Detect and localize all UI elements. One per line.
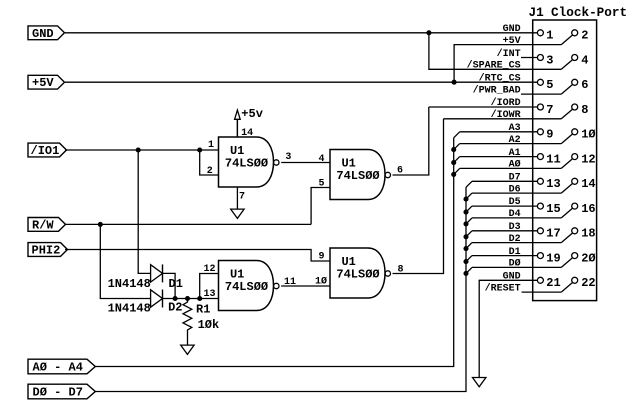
net name /INT at pin 3 [497, 48, 521, 60]
pin number 20 [581, 251, 595, 265]
+5V power symbol at U1 pin 14 [235, 107, 263, 137]
svg-text:R/W: R/W [32, 218, 54, 232]
svg-text:D6: D6 [509, 184, 521, 195]
junction GND branch [427, 31, 431, 35]
svg-text:6: 6 [581, 78, 588, 92]
wire D0 to pin 20 [472, 258, 573, 268]
svg-text:+5V: +5V [503, 36, 521, 47]
svg-text:/PWR_BAD: /PWR_BAD [473, 84, 521, 96]
pin number 13 [546, 177, 560, 191]
net label R/W [28, 218, 66, 233]
op-amp U1 NAND gate C pins 12-13-11 [219, 261, 279, 311]
pin number 18 [581, 227, 595, 241]
pin 20 circle [572, 253, 578, 259]
pin 14 circle [572, 178, 578, 184]
pin number 13 [203, 289, 215, 300]
wire A3 to pin 9 [460, 131, 538, 133]
pin 11 circle [537, 154, 543, 160]
pin number 7 [239, 191, 245, 202]
pin 21 circle [537, 277, 543, 283]
pin number 6 [581, 78, 588, 92]
svg-text:2Ø: 2Ø [581, 251, 595, 265]
junction D4 entry [464, 222, 468, 226]
svg-text:1Ø: 1Ø [581, 128, 595, 142]
wire R/W elbow up to pin 5 [311, 188, 330, 225]
net label A0 - A4 bus [28, 359, 95, 374]
junction D1-D2 cathodes [173, 296, 177, 300]
pin 8 circle [572, 104, 578, 110]
svg-text:22: 22 [581, 276, 595, 290]
svg-text:/IOWR: /IOWR [491, 109, 521, 121]
wire GND to pin 21 and down to ground [479, 280, 537, 377]
svg-text:AØ: AØ [509, 159, 521, 171]
svg-text:GND: GND [503, 24, 521, 35]
svg-text:19: 19 [546, 251, 560, 265]
svg-text:9: 9 [546, 128, 553, 142]
net name /PWR_BAD at pin 6 [473, 84, 521, 96]
pin 13 circle [537, 178, 543, 184]
label J1 [529, 5, 545, 20]
junction D3 entry [464, 235, 468, 239]
connector J1 Clock-Port body [533, 20, 597, 301]
wire D2 to pin 18 [472, 233, 573, 243]
net name A2 at pin 10 [509, 135, 521, 146]
svg-text:D1: D1 [509, 247, 521, 258]
wire D1 to pin 19 [472, 255, 537, 257]
svg-text:14: 14 [241, 128, 253, 139]
svg-text:A2: A2 [509, 135, 521, 146]
wire /PWR_BAD stub to pin 6 [521, 85, 573, 95]
net name A0 at pin 12 [509, 159, 521, 171]
svg-text:A1: A1 [509, 148, 521, 159]
pin number 11 [546, 152, 560, 166]
net name /IORD at pin 7 [491, 97, 521, 109]
pin 3 circle [537, 55, 543, 61]
wire PHI2 to U1D pin 9 [65, 250, 330, 262]
pin 9 circle [537, 129, 543, 135]
pin number 12 [581, 152, 595, 166]
pin 7 circle [537, 104, 543, 110]
svg-text:7: 7 [239, 191, 245, 202]
svg-text:8: 8 [581, 103, 588, 117]
pin number 5 [318, 178, 324, 189]
diode D1 1N4148 [151, 264, 163, 282]
wire A1 to pin 11 [460, 156, 538, 158]
wire /IO1 down to D1 anode [138, 150, 150, 273]
bus entry A3 [454, 132, 460, 138]
junction A1 entry [452, 161, 456, 165]
op-amp U1 NAND gate A pins 1-2-3 [219, 137, 279, 187]
svg-text:21: 21 [546, 276, 560, 290]
pin 2 circle [572, 30, 578, 36]
net name D6 at pin 14 [509, 184, 521, 195]
svg-text:14: 14 [581, 177, 595, 191]
op-amp U1 NAND gate D pins 9-10-8 [330, 248, 390, 298]
bus entry D5 [466, 206, 472, 212]
bus entry D1 [466, 256, 472, 262]
net name +5V at pin 2 [503, 36, 521, 47]
diode D2 1N4148 [151, 290, 163, 308]
pin number 9 [546, 128, 553, 142]
value 10k [198, 318, 220, 332]
wire R/W to U1B pin 5 [65, 223, 311, 225]
net name A3 at pin 9 [509, 123, 521, 134]
pin number 14 [241, 128, 253, 139]
wire pin 2 loop [200, 150, 219, 175]
wire U1D out pin8 up to /IOWR row [393, 119, 444, 274]
pin 14 wire [236, 119, 238, 137]
wire D2 cathode to U1C pin 13 [163, 298, 219, 300]
svg-text:74LSØØ: 74LSØØ [225, 280, 268, 294]
pin number 10 [315, 276, 327, 288]
value 1N4148 for D1 [108, 277, 151, 291]
svg-text:/SPARE_CS: /SPARE_CS [467, 60, 521, 72]
pin number 14 [581, 177, 595, 191]
svg-text:D7: D7 [509, 173, 521, 184]
svg-text:13: 13 [546, 177, 560, 191]
resistor R1 10k [183, 299, 192, 346]
pin number 4 [318, 154, 324, 165]
net name /SPARE_CS at pin 4 [467, 60, 521, 72]
wire /INT stub to pin 3 [521, 57, 537, 59]
pin number 3 [285, 152, 291, 163]
wire D5 to pin 15 [472, 205, 537, 207]
pin number 8 [581, 103, 588, 117]
svg-text:74LSØØ: 74LSØØ [336, 268, 379, 282]
pin number 19 [546, 251, 560, 265]
bus entry D0 [466, 267, 472, 273]
pin number 2 [581, 29, 588, 43]
pin 15 circle [537, 203, 543, 209]
svg-text:/RESET: /RESET [485, 282, 521, 294]
bus entry A0 [454, 168, 460, 174]
svg-text:74LSØØ: 74LSØØ [225, 157, 268, 171]
svg-text:15: 15 [546, 202, 560, 216]
pin 16 circle [572, 203, 578, 209]
wire A2 to pin 10 [460, 134, 573, 144]
junction D0 entry [464, 271, 468, 275]
svg-text:3: 3 [285, 152, 291, 163]
junction pin12 branch [198, 296, 202, 300]
pin number 3 [546, 53, 553, 67]
label D1 [169, 277, 183, 291]
svg-text:DØ - D7: DØ - D7 [33, 386, 83, 400]
svg-text:74LSØØ: 74LSØØ [336, 169, 379, 183]
op-amp U1 NAND gate B pins 4-5-6 [330, 150, 390, 200]
svg-text:3: 3 [546, 53, 553, 67]
net name D1 at pin 19 [509, 247, 521, 258]
pin 1 circle [537, 30, 543, 36]
svg-text:Clock-Port: Clock-Port [551, 5, 627, 20]
pin number 5 [546, 78, 553, 92]
svg-text:1N4148: 1N4148 [108, 277, 151, 291]
wire /SPARE_CS diagonal to pin 4 [561, 60, 572, 70]
pin number 2 [207, 166, 213, 177]
wire U1A out pin3 to U1B pin4 [281, 162, 330, 164]
net name /RESET at pin 22 [485, 282, 521, 294]
junction D5 entry [464, 210, 468, 214]
bus entry A1 [454, 157, 460, 163]
net name D5 at pin 15 [509, 197, 521, 208]
pin 18 circle [572, 228, 578, 234]
net label +5V [28, 75, 65, 90]
net name /IOWR at pin 8 [491, 109, 521, 121]
pin number 1 [546, 29, 553, 43]
pin number 15 [546, 202, 560, 216]
ground below R1 [181, 345, 194, 354]
net name D4 at pin 16 [509, 209, 521, 220]
net label PHI2 [28, 243, 68, 258]
pin number 7 [546, 103, 553, 117]
svg-text:/RTC_CS: /RTC_CS [479, 73, 521, 85]
wire +5V to connector pin 5 [65, 81, 537, 83]
net label GND [28, 26, 65, 41]
wire R/W down to D2 anode [100, 224, 150, 298]
net name D0 at pin 20 [509, 258, 521, 270]
wire +5V up to pin 2 row [454, 45, 561, 83]
wire /RESET stub to pin 22 [522, 283, 573, 293]
bus entry A2 [454, 144, 460, 150]
svg-text:PHI2: PHI2 [32, 244, 61, 258]
value 1N4148 for D2 [108, 302, 151, 316]
svg-text:D2: D2 [509, 234, 521, 245]
wire D7 to pin 13 [472, 180, 537, 182]
svg-text:12: 12 [581, 152, 595, 166]
pin 5 circle [537, 79, 543, 85]
pin number 21 [546, 276, 560, 290]
pin number 22 [581, 276, 595, 290]
net label D0 - D7 bus [28, 384, 95, 399]
svg-text:4: 4 [581, 53, 588, 67]
svg-text:18: 18 [581, 227, 595, 241]
junction D6 entry [464, 197, 468, 201]
pin number 6 [397, 166, 403, 177]
wire A0 to pin 12 [460, 159, 573, 169]
junction D1 entry [464, 260, 468, 264]
junction R1 top [185, 296, 189, 300]
junction /IO1-D1 branch [136, 148, 140, 152]
pin number 8 [397, 265, 403, 276]
pin number 11 [284, 277, 296, 288]
net name D2 at pin 18 [509, 234, 521, 245]
net label /IO1 [28, 143, 67, 158]
net name A1 at pin 11 [509, 148, 521, 159]
svg-text:D5: D5 [509, 197, 521, 208]
wire D3 to pin 17 [472, 230, 537, 232]
wire U1B out pin6 up to /IORD row [393, 107, 429, 175]
svg-text:1Øk: 1Øk [198, 318, 220, 332]
net name GND at pin 21 [503, 272, 521, 283]
pin number 12 [203, 264, 215, 275]
svg-text:2: 2 [581, 29, 588, 43]
pin 10 circle [572, 129, 578, 135]
pin 17 circle [537, 228, 543, 234]
wire bus A0-A4 [95, 138, 453, 367]
svg-text:1: 1 [546, 29, 553, 43]
svg-text:17: 17 [546, 227, 560, 241]
svg-text:16: 16 [581, 202, 595, 216]
svg-text:D4: D4 [509, 209, 521, 220]
svg-text:A3: A3 [509, 123, 521, 134]
pin number 17 [546, 227, 560, 241]
wire D6 to pin 14 [472, 184, 573, 194]
pin 19 circle [537, 253, 543, 259]
junction +5V branch [452, 80, 456, 84]
ground at bottom right [473, 378, 486, 387]
pin 12 circle [572, 154, 578, 160]
bus entry D3 [466, 231, 472, 237]
wire GND down to /SPARE_CS row [429, 33, 561, 70]
svg-text:J1: J1 [529, 5, 545, 20]
net name /RTC_CS at pin 5 [479, 73, 521, 85]
pin number 10 [581, 128, 595, 142]
svg-text:R1: R1 [196, 303, 210, 317]
wire D1 cathode down to node [163, 273, 176, 298]
svg-text:11: 11 [546, 152, 560, 166]
svg-text:+5v: +5v [241, 107, 263, 121]
pin 6 circle [572, 79, 578, 85]
svg-text:4: 4 [318, 154, 324, 165]
wire +5V diagonal to pin 2 [561, 35, 572, 45]
wire bus D0-D7 [95, 187, 466, 391]
pin number 9 [318, 252, 324, 263]
pin 4 circle [572, 55, 578, 61]
pin 22 circle [572, 277, 578, 283]
svg-text:1N4148: 1N4148 [108, 302, 151, 316]
svg-text:/INT: /INT [497, 48, 521, 60]
ground at U1 pin 7 [231, 187, 244, 218]
svg-text:5: 5 [546, 78, 553, 92]
bus entry D7 [466, 181, 472, 187]
junction R/W-D2 branch [98, 222, 102, 226]
wire GND to connector pin 1 [65, 32, 537, 34]
svg-text:AØ - A4: AØ - A4 [33, 361, 83, 375]
pin number 4 [581, 53, 588, 67]
wire /IO1 to U1A pin 1 [65, 149, 219, 151]
svg-text:D2: D2 [168, 301, 182, 315]
bus entry D4 [466, 218, 472, 224]
svg-text:GND: GND [32, 27, 54, 41]
bus entry D6 [466, 193, 472, 199]
pin number 16 [581, 202, 595, 216]
svg-text:+5V: +5V [32, 76, 54, 90]
wire U1C out pin11 to U1D pin10 [281, 285, 330, 287]
value Clock-Port [551, 5, 627, 20]
svg-text:DØ: DØ [509, 258, 521, 270]
label D2 [168, 301, 182, 315]
net name GND at pin 1 [503, 24, 521, 35]
svg-text:GND: GND [503, 272, 521, 283]
junction A0 entry [452, 172, 456, 176]
wire /IOWR to pin 8 [444, 109, 573, 119]
svg-text:/IO1: /IO1 [31, 144, 60, 158]
net name D7 at pin 13 [509, 173, 521, 184]
wire D4 to pin 16 [472, 208, 573, 218]
bus entry D2 [466, 243, 472, 249]
svg-text:7: 7 [546, 103, 553, 117]
junction A2 entry [452, 148, 456, 152]
net name D3 at pin 17 [509, 222, 521, 233]
svg-text:D3: D3 [509, 222, 521, 233]
junction D2 entry [464, 247, 468, 251]
wire /IORD to pin 7 [429, 106, 538, 108]
pin number 1 [208, 140, 214, 151]
wire pin 12 loop [200, 274, 219, 299]
junction /IO1-pin2 branch [198, 148, 202, 152]
label R1 [196, 303, 210, 317]
svg-text:/IORD: /IORD [491, 97, 521, 109]
